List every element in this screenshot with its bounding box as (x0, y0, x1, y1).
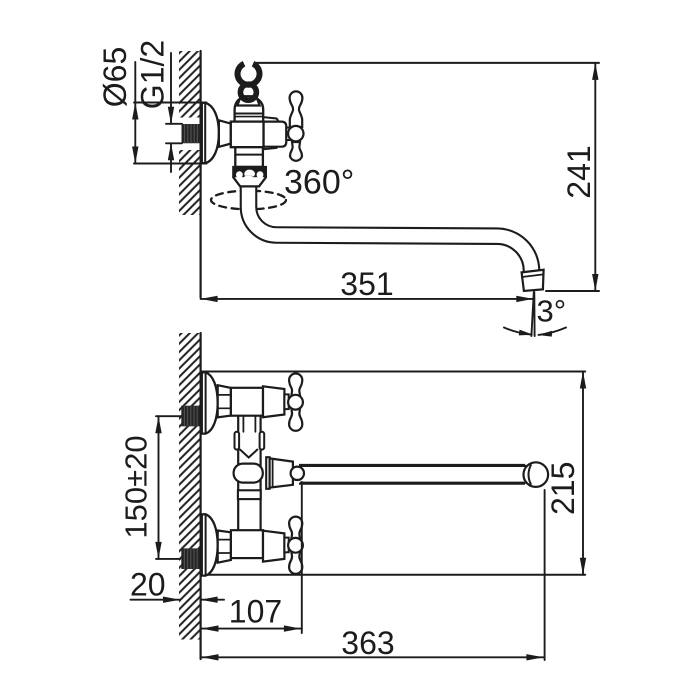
swivel dashed ellipse (360 deg rotation) (211, 191, 286, 210)
3 deg angle: vertical extension ray (533, 292, 535, 336)
extension line at spout tip (544, 490, 546, 660)
bonnet ledge (bottom) (262, 145, 279, 150)
svg-text:G1/2: G1/2 (135, 40, 171, 109)
extension line at x=302 (handle outer edge) (301, 482, 303, 633)
threaded nipple (black with thread stripes) (182, 124, 201, 143)
redraw nut bottom over tube start (233, 177, 266, 186)
valve body (top) (231, 388, 263, 416)
stem (top valve) (284, 394, 288, 409)
spout flange (266, 457, 269, 489)
dimension 107: line and arrows (201, 628, 302, 630)
dimension 20: line with outside arrows (131, 599, 181, 601)
spout nozzle (aerator cap, tilted 3 deg) (522, 270, 544, 291)
svg-text:363: 363 (341, 625, 394, 661)
bonnet ledge (top) (262, 117, 279, 122)
reference line 215 (bottom) (202, 574, 586, 576)
wall (hatched section, top view) (179, 51, 201, 215)
svg-text:215: 215 (545, 462, 581, 515)
faucet body: upper section with shoulders (235, 99, 264, 122)
handle stem (286, 128, 290, 140)
collar band below tee (238, 490, 261, 499)
spout tube (long, front view) (298, 465, 536, 484)
svg-text:107: 107 (229, 594, 282, 630)
3 deg angle: tilted ray (531, 292, 533, 336)
escutcheon (bottom inlet) (202, 514, 218, 575)
V joint detail (242, 417, 244, 432)
dimension 351: line and arrows (201, 298, 535, 300)
cross handle (top valve): lower arm (289, 409, 302, 431)
cross handle (side view): top arm (290, 91, 303, 127)
cross handle (bottom valve): upper arm (289, 517, 302, 539)
svg-text:20: 20 (130, 567, 166, 603)
dimension Ø65: extension lines (134, 102, 207, 104)
svg-text:360°: 360° (284, 164, 354, 202)
escutcheon (top inlet) (202, 372, 218, 433)
wall (hatched section, front/bottom view) (179, 333, 201, 640)
cross handle: hub (288, 126, 303, 141)
spout end cap (299, 462, 548, 487)
bonnet (top valve) (263, 386, 284, 417)
hex adapter (219, 120, 231, 147)
hex adapter (bottom inlet) (218, 531, 231, 563)
vertical body tube between valves (238, 415, 260, 535)
valve bonnet (264, 122, 287, 147)
body: central block (231, 122, 264, 148)
threaded nipple (top inlet) (181, 406, 199, 427)
cross handle (top valve): hub (288, 395, 303, 410)
svg-text:241: 241 (561, 145, 597, 198)
valve body (bottom) (231, 530, 263, 558)
threaded nipple (bottom inlet) (181, 548, 199, 569)
dimension 215: line and arrows (582, 372, 584, 575)
cross handle (bottom valve): hub (288, 538, 303, 553)
dimension 150±20: extension lines (156, 415, 181, 417)
wall surface line (200, 333, 202, 659)
dimension G1/2: extension lines (166, 123, 182, 125)
svg-text:351: 351 (340, 266, 393, 302)
dimension 363: line and arrows (201, 656, 545, 658)
svg-text:150±20: 150±20 (119, 435, 154, 538)
escutcheon (wall flange, top view) (202, 103, 219, 163)
swivel ball joint (291, 467, 304, 480)
cross handle: bottom arm (290, 142, 302, 161)
spout tube (S-shape) (249, 182, 532, 272)
cross handle (top valve): upper arm (289, 374, 302, 396)
hex adapter (top inlet) (218, 385, 231, 417)
reference line (top, from hook to 241 dim) (257, 62, 600, 64)
spout cone (270, 458, 293, 487)
neck under hook ring (237, 96, 259, 105)
svg-text:3°: 3° (537, 294, 567, 329)
stem (bottom valve) (284, 538, 288, 553)
reference line (nozzle bottom to 241 dim) (546, 290, 599, 292)
shower hook ring (240, 84, 256, 100)
3 deg angle: arc with arrows (504, 328, 532, 335)
cross handle (bottom valve): lower arm (289, 552, 302, 574)
reference line 215 (top) (202, 371, 586, 373)
svg-text:Ø65: Ø65 (97, 47, 133, 107)
decorative nut with scalloped band (233, 167, 266, 186)
body: lower section (235, 147, 263, 167)
shower hook crescent (235, 61, 263, 88)
socket collar flares (below top valve) (235, 432, 240, 450)
bonnet (bottom valve) (263, 531, 284, 562)
dimension 150±20: dimension line with arrows (158, 416, 160, 559)
tee bulge (middle body) (234, 464, 263, 483)
dimension Ø65: dimension line with arrows (134, 62, 136, 164)
wall surface line (200, 51, 202, 298)
dimension 241: line and arrows (594, 63, 596, 291)
dimension G1/2: dimension line with outside arrows (170, 53, 172, 124)
